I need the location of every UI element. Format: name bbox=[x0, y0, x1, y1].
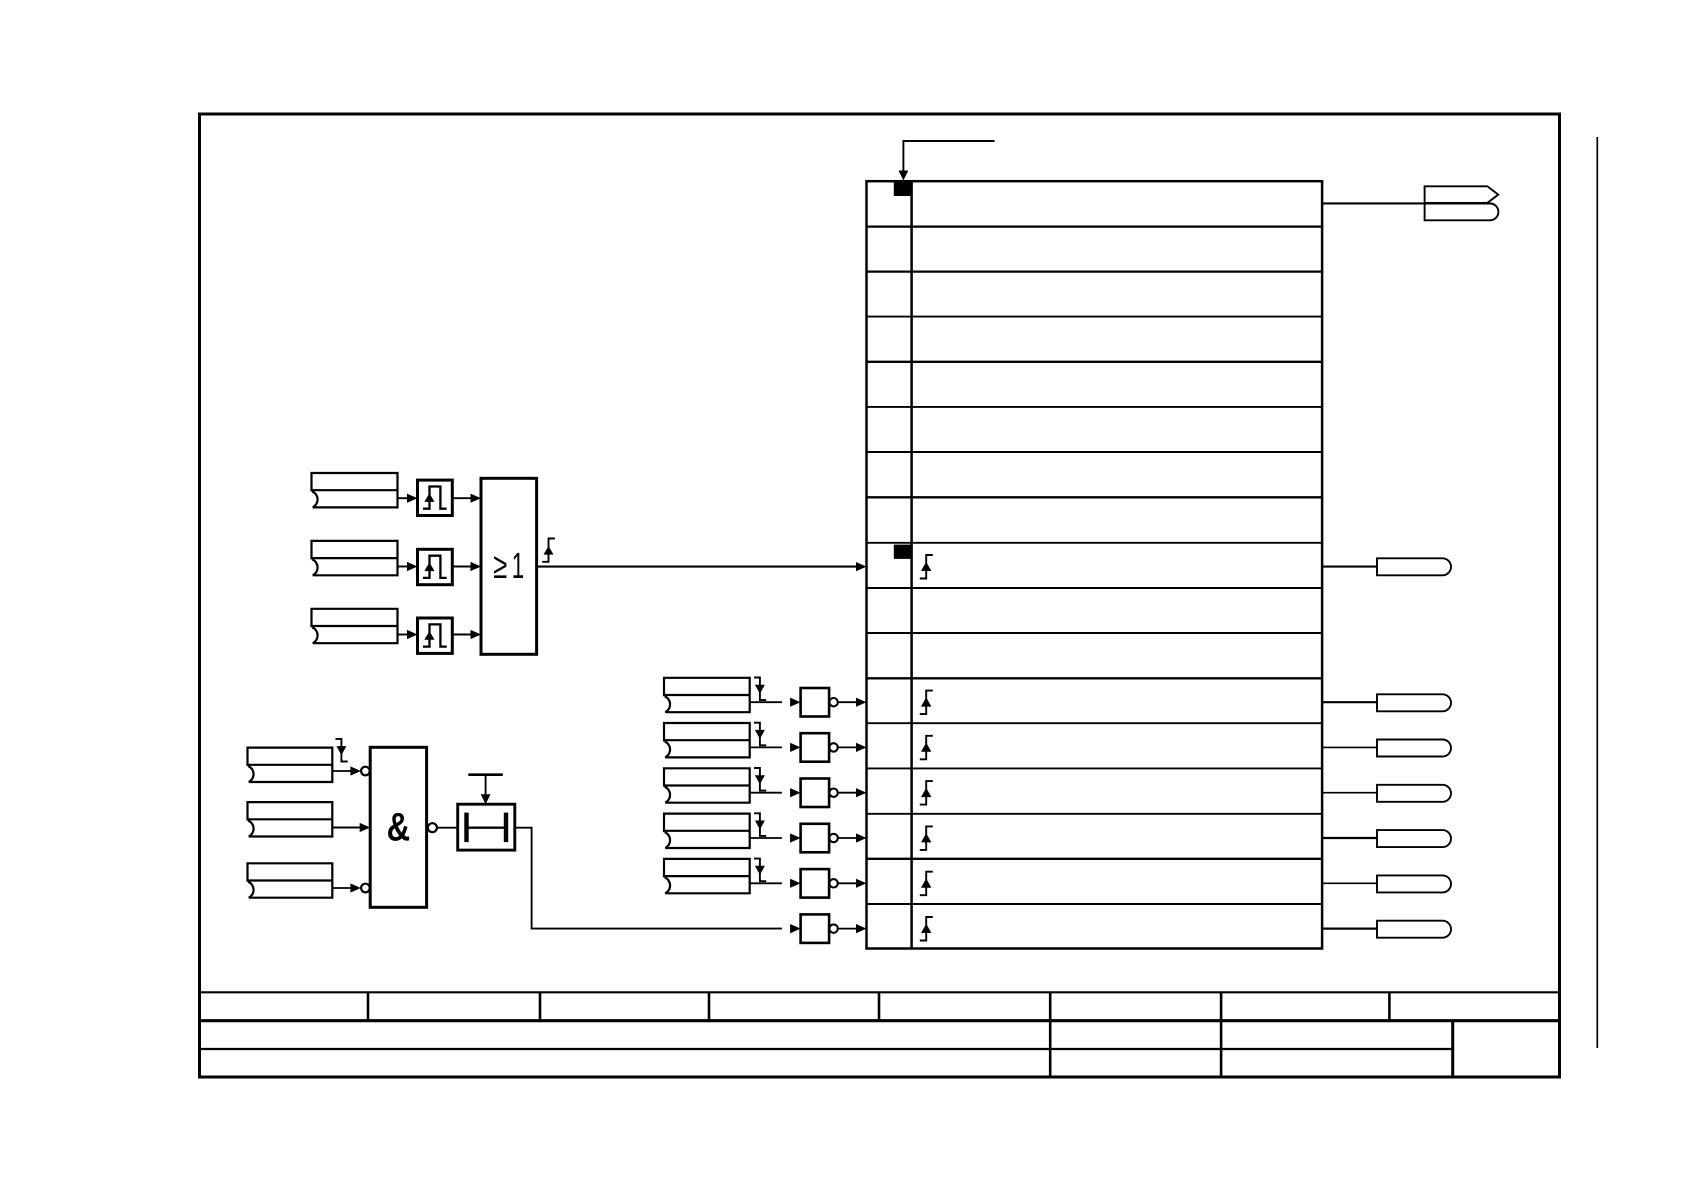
binector output O6 bbox=[1377, 785, 1451, 802]
rising-edge symbol row 9 bbox=[920, 555, 933, 579]
connector output O1 (chevron) bbox=[1425, 186, 1499, 203]
falling-edge symbol at B11 bbox=[754, 859, 766, 882]
pulse shaper P3 bbox=[418, 618, 453, 653]
inverter N4 bbox=[801, 824, 838, 853]
binector input B5 bbox=[248, 802, 333, 836]
reference wire into table row 1 bbox=[899, 141, 995, 181]
binector input B2 bbox=[312, 541, 398, 575]
AND gate U2 bbox=[370, 747, 426, 907]
wire B9 to inverter N3 bbox=[750, 788, 801, 797]
wire timer to inverter N6 bbox=[515, 828, 801, 934]
binector input B7 bbox=[664, 678, 750, 712]
binector output O2 (capsule) bbox=[1425, 204, 1499, 221]
binector input B9 bbox=[664, 768, 750, 802]
wire P1 to OR gate bbox=[452, 494, 481, 503]
wire inverter N2 to table bbox=[838, 743, 867, 752]
inverter N3 bbox=[801, 779, 838, 808]
falling-edge symbol at B7 bbox=[754, 678, 766, 701]
wire table row 16 to output O9 bbox=[1322, 927, 1377, 929]
rising-edge symbol row 16 bbox=[920, 917, 933, 941]
falling-edge symbol at B9 bbox=[754, 768, 766, 791]
rising-edge symbol row 15 bbox=[920, 872, 933, 896]
wire AND to timer bbox=[437, 827, 458, 829]
wire inverter N6 to table bbox=[838, 924, 867, 933]
signal table frame bbox=[867, 181, 1323, 948]
inverter N6 bbox=[801, 914, 838, 943]
pulse shaper P1 bbox=[418, 480, 453, 515]
wire table row 11 to output O4 bbox=[1322, 701, 1377, 703]
wire table row 9 to output O3 bbox=[1322, 566, 1377, 568]
wire inverter N1 to table bbox=[838, 698, 867, 707]
wire P3 to OR gate bbox=[452, 630, 481, 639]
wire B8 to inverter N2 bbox=[750, 743, 801, 752]
binector output O9 bbox=[1377, 921, 1451, 938]
wire inverter N3 to table bbox=[838, 788, 867, 797]
wire B6 to AND inverted input bbox=[332, 883, 361, 892]
wire OR gate to table row 9 bbox=[537, 562, 867, 571]
wire table row 1 to output connectors bbox=[1322, 202, 1425, 204]
falling-edge symbol at B8 bbox=[754, 723, 766, 746]
wire table row 12 to output O5 bbox=[1322, 746, 1377, 748]
wire inverter N4 to table bbox=[838, 833, 867, 842]
svg-text:≥: ≥ bbox=[493, 545, 507, 586]
timer block T1 bbox=[458, 804, 515, 850]
binector output O5 bbox=[1377, 740, 1451, 757]
svg-text:1: 1 bbox=[512, 545, 524, 586]
binector output O4 bbox=[1377, 694, 1451, 711]
falling-edge symbol at B10 bbox=[754, 813, 766, 836]
title block bbox=[200, 992, 1560, 1077]
wire B3 to pulse shaper bbox=[398, 630, 418, 639]
rising-edge symbol row 14 bbox=[920, 826, 933, 850]
rising-edge symbol row 11 bbox=[920, 691, 933, 715]
falling-edge symbol at B4 bbox=[336, 739, 348, 762]
binector output O7 bbox=[1377, 830, 1451, 847]
node marker row 1 bbox=[894, 181, 912, 196]
binector input B8 bbox=[664, 723, 750, 757]
timer trigger tee bbox=[468, 775, 503, 805]
inverter N1 bbox=[801, 688, 838, 717]
binector input B10 bbox=[664, 814, 750, 848]
wire inverter N5 to table bbox=[838, 879, 867, 888]
wire B2 to pulse shaper bbox=[398, 562, 418, 571]
rising-edge symbol row 12 bbox=[920, 736, 933, 760]
wire B10 to inverter N4 bbox=[750, 833, 801, 842]
OR gate U1 bbox=[481, 478, 537, 654]
wire table row 13 to output O6 bbox=[1322, 792, 1377, 794]
wire B11 to inverter N5 bbox=[750, 879, 801, 888]
binector output O8 bbox=[1377, 875, 1451, 892]
wire B7 to inverter N1 bbox=[750, 698, 801, 707]
binector output O3 bbox=[1377, 558, 1451, 575]
node marker row 9 bbox=[894, 545, 912, 559]
wire P2 to OR gate bbox=[452, 562, 481, 571]
binector input B3 bbox=[312, 609, 398, 643]
binector input B1 bbox=[312, 473, 398, 507]
fold mark line bbox=[1596, 137, 1598, 1048]
wire B5 to AND input bbox=[332, 823, 370, 832]
wire table row 14 to output O7 bbox=[1322, 837, 1377, 839]
binector input B4 bbox=[248, 748, 333, 782]
inverter N2 bbox=[801, 733, 838, 762]
wire table row 15 to output O8 bbox=[1322, 882, 1377, 884]
wire B1 to pulse shaper bbox=[398, 494, 418, 503]
pulse shaper P2 bbox=[418, 549, 453, 584]
rising-edge symbol row 13 bbox=[920, 781, 933, 805]
signal table column divider bbox=[910, 181, 913, 948]
wire B4 to AND inverted input bbox=[332, 766, 361, 775]
binector input B6 bbox=[248, 863, 333, 897]
rising-edge symbol at OR output bbox=[542, 539, 555, 562]
drawing frame bbox=[200, 114, 1560, 1077]
inversion bubble AND input 3 bbox=[361, 884, 370, 893]
inversion bubble AND input 1 bbox=[361, 767, 370, 776]
binector input B11 bbox=[664, 859, 750, 893]
inverter N5 bbox=[801, 869, 838, 898]
svg-text:&: & bbox=[387, 805, 411, 849]
signal table row lines bbox=[867, 227, 1323, 904]
inversion bubble AND output bbox=[428, 823, 437, 832]
